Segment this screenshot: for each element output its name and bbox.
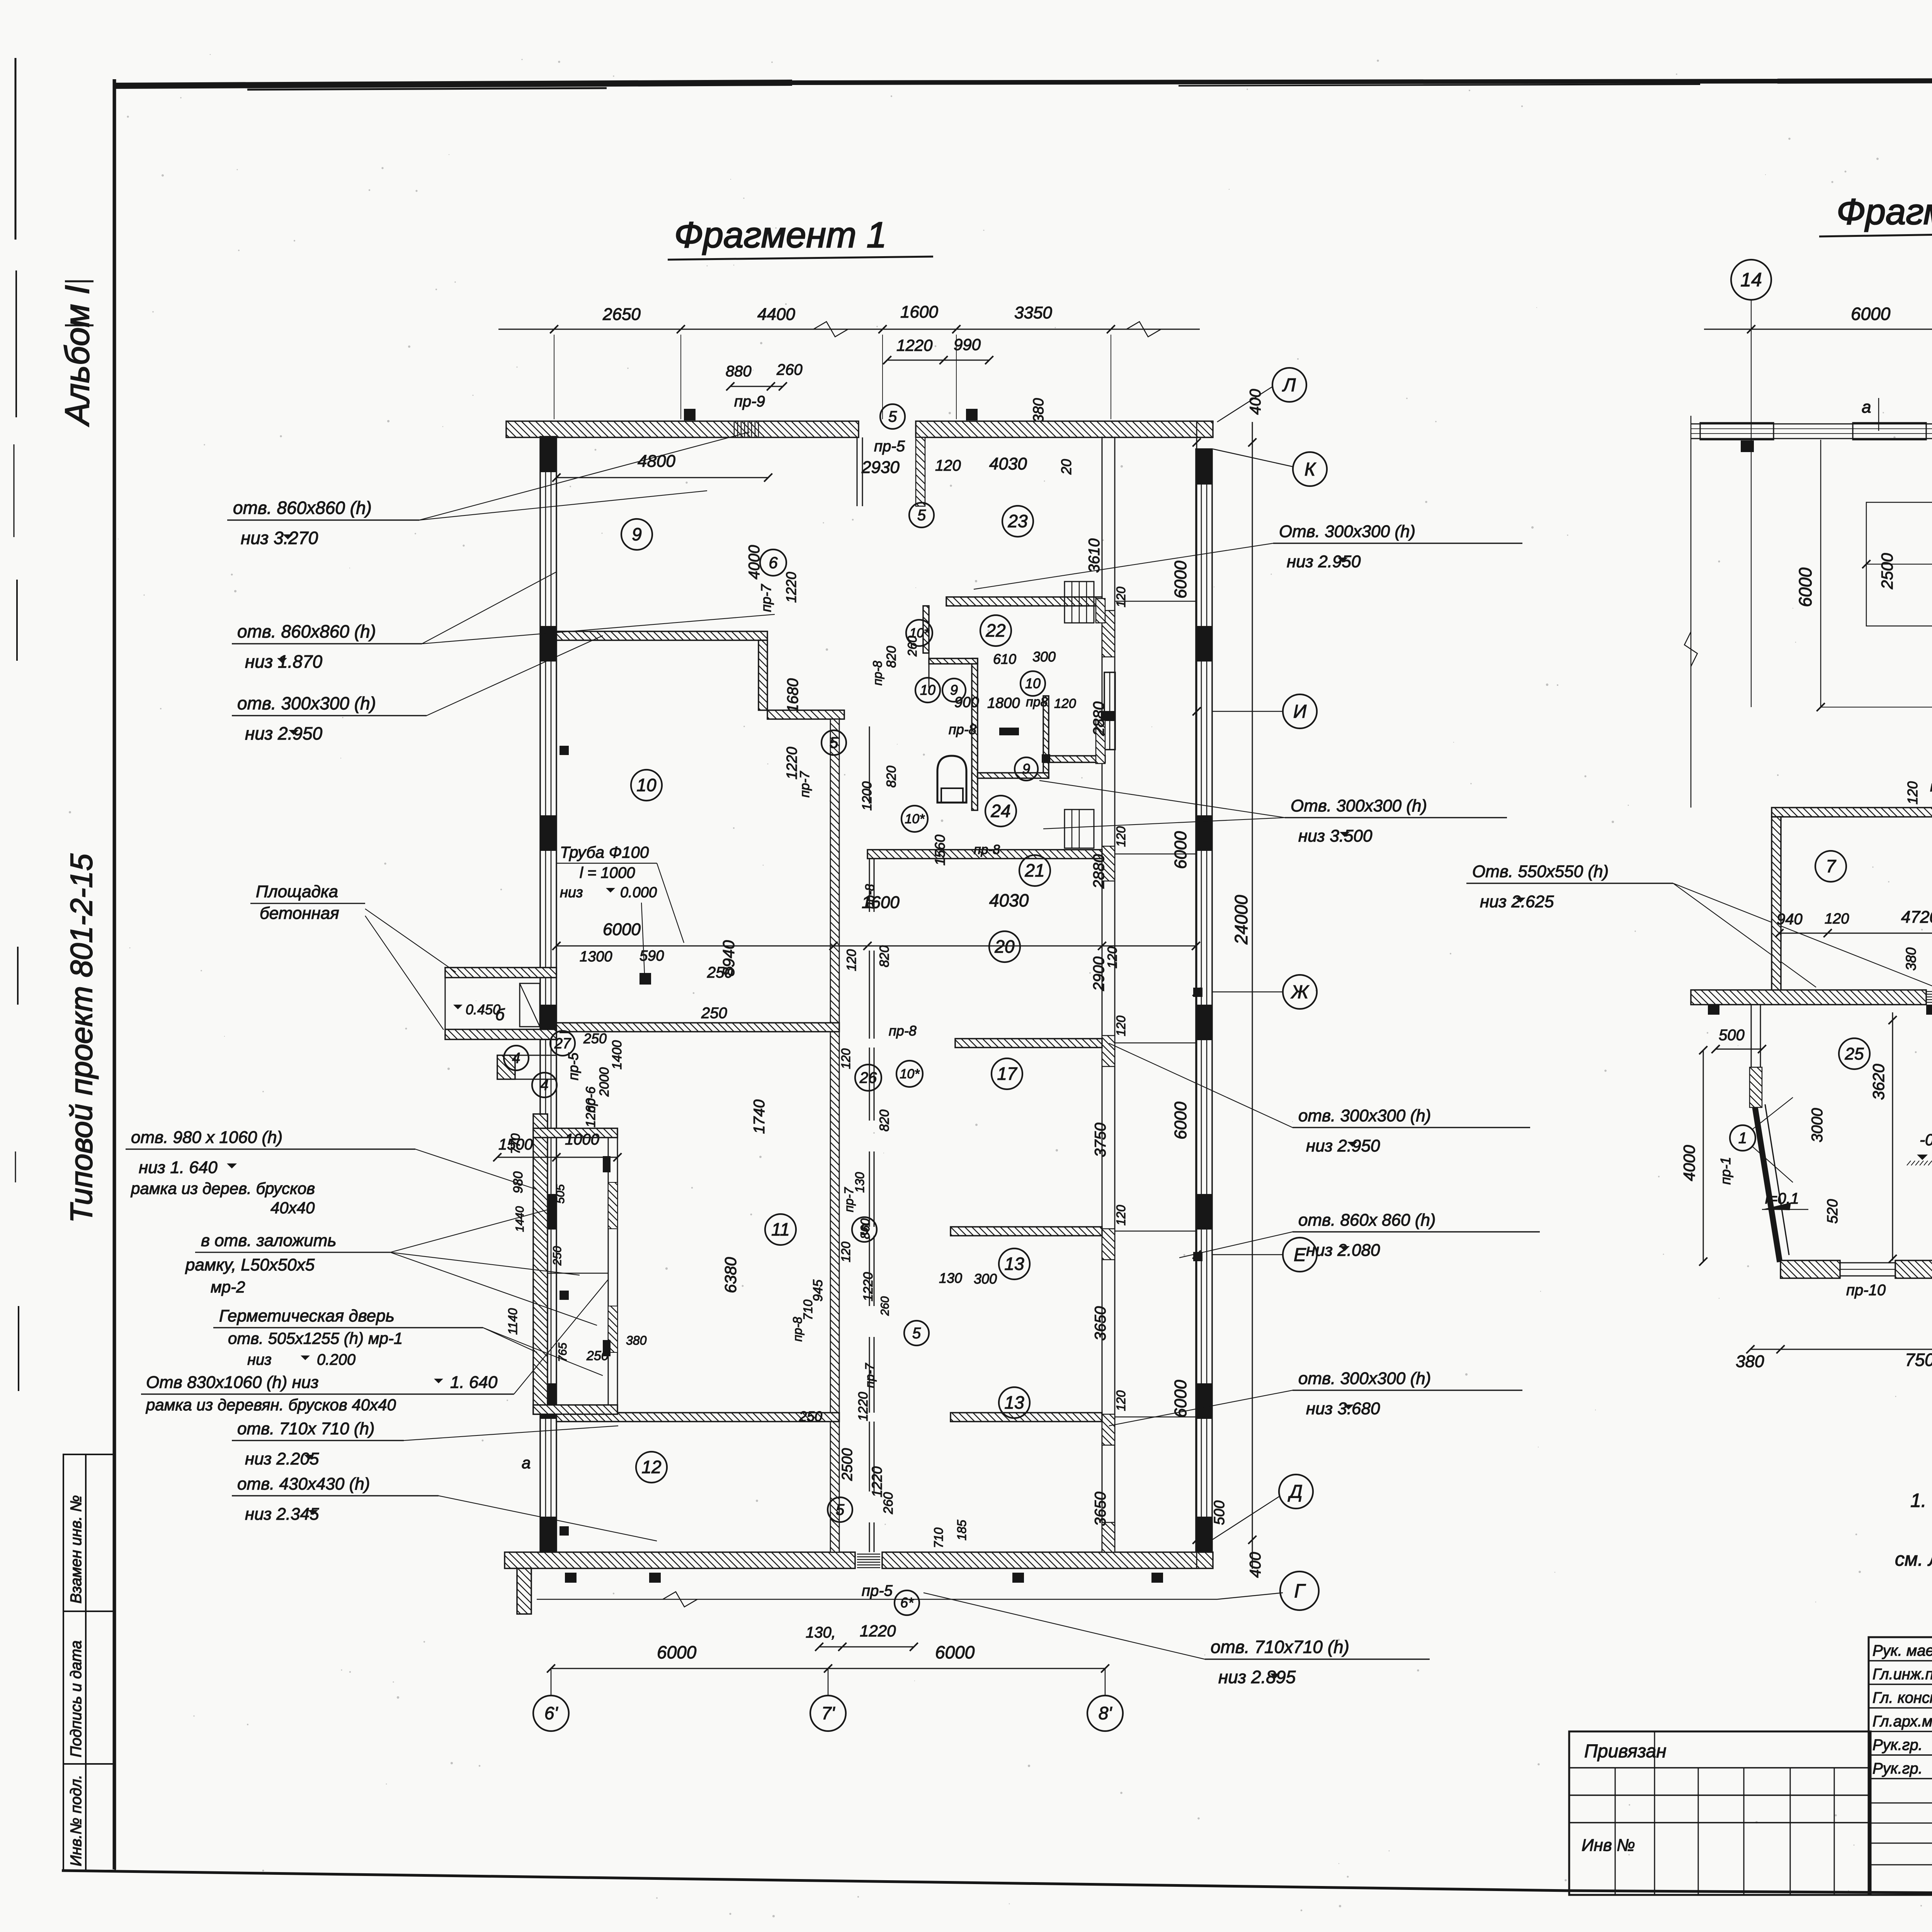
svg-text:185: 185 bbox=[955, 1520, 969, 1541]
room circle 9 bbox=[621, 519, 652, 550]
room circle 13b bbox=[999, 1387, 1030, 1418]
svg-text:20: 20 bbox=[994, 937, 1015, 957]
svg-text:1400: 1400 bbox=[610, 1040, 624, 1070]
door circles 9/7 fragment2 bbox=[1930, 777, 1932, 823]
svg-text:990: 990 bbox=[954, 335, 981, 354]
svg-text:130,: 130, bbox=[806, 1624, 836, 1641]
svg-text:Гл.инж.пр: Гл.инж.пр bbox=[1872, 1666, 1932, 1683]
svg-text:4030: 4030 bbox=[989, 454, 1027, 473]
svg-text:Рук. мает: Рук. мает bbox=[1872, 1642, 1932, 1659]
svg-text:2930: 2930 bbox=[861, 458, 900, 477]
svg-text:1680: 1680 bbox=[784, 679, 801, 713]
svg-text:5: 5 bbox=[836, 1502, 845, 1519]
annotation Труба Ф100 bbox=[556, 843, 684, 974]
fragment1 vertical dim chain 24000 bbox=[1231, 422, 1257, 1569]
svg-text:4800: 4800 bbox=[638, 452, 675, 471]
svg-text:Отв 830х1060 (h) низ: Отв 830х1060 (h) низ bbox=[146, 1373, 319, 1392]
svg-text:2650: 2650 bbox=[602, 305, 641, 324]
wall: room25 left bbox=[1750, 1005, 1762, 1107]
svg-text:10*: 10* bbox=[905, 812, 925, 827]
circle 5 top door bbox=[880, 404, 905, 429]
svg-text:1800: 1800 bbox=[987, 695, 1020, 711]
labels пр-1 room25 bbox=[1718, 1157, 1932, 1185]
grid circle 14 bbox=[1731, 260, 1771, 707]
wall: plan1 bottom exterior right segment bbox=[882, 1552, 1213, 1568]
svg-text:6000: 6000 bbox=[935, 1642, 975, 1662]
svg-text:пр-7: пр-7 bbox=[798, 771, 812, 798]
svg-text:10: 10 bbox=[636, 775, 656, 795]
dim row rooms 7/8 bbox=[1775, 905, 1932, 974]
svg-text:1. Конструкцию дверей с и: 1. Конструкцию дверей с индексами bbox=[1910, 1490, 1932, 1511]
grid circle Ж bbox=[1283, 975, 1317, 1009]
wall: jog vertical bbox=[759, 640, 767, 710]
svg-text:5: 5 bbox=[860, 1221, 869, 1238]
svg-text:пр-9: пр-9 bbox=[734, 393, 765, 410]
svg-text:4030: 4030 bbox=[989, 890, 1029, 910]
svg-text:4400: 4400 bbox=[757, 305, 795, 324]
svg-text:250: 250 bbox=[583, 1031, 607, 1046]
svg-text:низ: низ bbox=[247, 1351, 272, 1368]
axis line Ж bbox=[1212, 992, 1283, 993]
grid circle И bbox=[1283, 694, 1317, 728]
platform rectangle room6 bbox=[1862, 498, 1932, 630]
svg-text:пр-8: пр-8 bbox=[974, 842, 1000, 857]
wall: room10|room11 horizontal bbox=[556, 1023, 839, 1032]
circle 27 label bbox=[550, 1031, 575, 1056]
vestibule bottom wall bbox=[533, 1405, 617, 1414]
sheet frame: left border line bbox=[113, 79, 116, 1869]
sheet frame: bottom border line bbox=[62, 1871, 1932, 1897]
grid circle 7 prime bbox=[810, 1668, 846, 1731]
svg-text:низ 2.950: низ 2.950 bbox=[1287, 552, 1361, 571]
svg-text:1. 640: 1. 640 bbox=[450, 1373, 498, 1392]
annotation отв.860x860 низ2.080 bbox=[1179, 1211, 1540, 1260]
wall: plan1 bottom-left corner stub bbox=[517, 1568, 531, 1614]
wall: plan1 right exterior with windows bbox=[1196, 449, 1212, 1552]
svg-text:250: 250 bbox=[701, 1005, 727, 1022]
svg-text:500: 500 bbox=[1719, 1027, 1745, 1044]
wall: plan1 left exterior with windows bbox=[540, 437, 556, 1552]
svg-text:980: 980 bbox=[511, 1172, 526, 1194]
svg-text:пр-8: пр-8 bbox=[1930, 779, 1932, 795]
svg-text:820: 820 bbox=[877, 946, 892, 968]
axis line Г bbox=[537, 1592, 1283, 1607]
привязан bottom extension bbox=[1569, 1894, 1869, 1896]
svg-text:мр-2: мр-2 bbox=[211, 1278, 245, 1296]
label а fragment2 bbox=[1862, 398, 1879, 431]
svg-text:9: 9 bbox=[1022, 761, 1030, 777]
grid circle К bbox=[1293, 452, 1327, 486]
svg-text:Отв. 300х300 (h): Отв. 300х300 (h) bbox=[1291, 796, 1427, 815]
truba black mark bbox=[639, 973, 651, 985]
svg-text:а: а bbox=[1862, 398, 1871, 417]
привязан block outer bbox=[1569, 1731, 1871, 1895]
svg-text:Фрагмент 2: Фрагмент 2 bbox=[1837, 191, 1932, 232]
room circle 25 bbox=[1839, 1038, 1870, 1069]
wall: plan2 Л-axis bottom wall bbox=[1691, 990, 1932, 1005]
svg-text:5: 5 bbox=[888, 408, 897, 425]
rotated dimension texts fragment1 bbox=[514, 539, 1128, 1548]
svg-text:24: 24 bbox=[990, 801, 1010, 821]
grid circle Г bbox=[1280, 1571, 1319, 1610]
column marks plan2 top bbox=[1741, 440, 1932, 452]
fragment1 top dim chain 880/260 bbox=[726, 361, 803, 391]
axis line И bbox=[1212, 711, 1283, 712]
svg-text:отв. 300х300 (h): отв. 300х300 (h) bbox=[1298, 1106, 1431, 1125]
svg-text:9: 9 bbox=[950, 682, 958, 698]
svg-text:2500: 2500 bbox=[839, 1448, 855, 1481]
grid circle 8 prime bbox=[1087, 1668, 1123, 1731]
svg-text:6000: 6000 bbox=[1171, 561, 1190, 599]
svg-text:380: 380 bbox=[626, 1333, 647, 1347]
svg-text:6000: 6000 bbox=[1795, 567, 1815, 607]
svg-text:Фрагмент 1: Фрагмент 1 bbox=[674, 214, 887, 255]
fixture: WC in room 24 bbox=[937, 756, 966, 803]
svg-text:1200: 1200 bbox=[860, 781, 874, 811]
annotation отв.300x300 низ3.680 bbox=[1109, 1369, 1522, 1426]
svg-text:25: 25 bbox=[1845, 1044, 1864, 1063]
sheet frame: top border line bbox=[113, 79, 1932, 90]
svg-text:-0.150: -0.150 bbox=[1920, 1131, 1932, 1149]
svg-text:6': 6' bbox=[544, 1703, 559, 1723]
svg-text:низ 2.205: низ 2.205 bbox=[245, 1449, 319, 1468]
svg-text:в отв. заложить: в отв. заложить bbox=[201, 1231, 337, 1250]
column marks plan1 bbox=[560, 409, 1202, 1583]
svg-text:400: 400 bbox=[1247, 1552, 1264, 1578]
vent shaft room21 bbox=[1065, 810, 1094, 848]
fragment1 top dim chain 2650/4400/1600/3350 bbox=[498, 303, 1200, 419]
svg-text:120: 120 bbox=[1825, 911, 1849, 927]
svg-text:260: 260 bbox=[776, 361, 803, 378]
svg-text:низ 2.625: низ 2.625 bbox=[1480, 892, 1554, 911]
grid circle Е bbox=[1283, 1238, 1317, 1272]
vestibule rotated dims bbox=[506, 1133, 569, 1362]
dims 500/400 bottom right bbox=[1211, 1500, 1264, 1578]
annotation отв.300x300 низ2.950 (2) bbox=[1109, 1043, 1530, 1155]
fragment1 dim row 6000/1600/4030 at y2448 bbox=[552, 890, 1200, 971]
svg-text:бетонная: бетонная bbox=[260, 904, 339, 923]
wall: rooms20|17 horizontal bbox=[955, 1039, 1102, 1048]
labels пр-10 bbox=[1846, 1282, 1932, 1299]
title: Фрагмент 2 bbox=[1819, 191, 1932, 236]
svg-text:8': 8' bbox=[1099, 1703, 1113, 1723]
svg-text:Л: Л bbox=[1282, 375, 1296, 395]
svg-text:2900: 2900 bbox=[1090, 957, 1107, 992]
wall: plan2 top exterior window band bbox=[1684, 416, 1932, 808]
svg-text:820: 820 bbox=[877, 1110, 892, 1132]
svg-text:1440: 1440 bbox=[514, 1206, 526, 1232]
stub below platform bbox=[497, 1055, 556, 1079]
svg-text:низ 3.270: низ 3.270 bbox=[241, 528, 318, 548]
svg-text:1220: 1220 bbox=[860, 1622, 896, 1640]
привязан columns bbox=[1615, 1731, 1834, 1895]
annotation в отв заложить bbox=[185, 1209, 597, 1325]
svg-text:11: 11 bbox=[771, 1219, 790, 1240]
svg-text:низ 1. 640: низ 1. 640 bbox=[139, 1158, 218, 1177]
annotation Площадка бетонная bbox=[250, 882, 456, 1030]
svg-text:пр-8: пр-8 bbox=[889, 1023, 917, 1039]
annotation Отв.300x300 низ3.500 bbox=[1039, 781, 1507, 845]
svg-text:23: 23 bbox=[1007, 511, 1028, 531]
svg-text:пр-5: пр-5 bbox=[565, 1052, 581, 1080]
svg-text:К: К bbox=[1304, 459, 1316, 480]
svg-text:260: 260 bbox=[881, 1492, 896, 1515]
svg-text:Труба Ф100: Труба Ф100 bbox=[560, 843, 649, 861]
svg-text:низ 1.870: низ 1.870 bbox=[245, 651, 323, 672]
fragment1 dim 4800 with line bbox=[552, 452, 772, 482]
svg-text:3000: 3000 bbox=[1809, 1108, 1826, 1143]
svg-text:4: 4 bbox=[540, 1077, 548, 1094]
svg-text:отв. 505х1255 (h) мр-1: отв. 505х1255 (h) мр-1 bbox=[228, 1329, 403, 1347]
column marks Л wall bbox=[1708, 1005, 1932, 1015]
svg-text:3610: 3610 bbox=[1086, 539, 1103, 573]
svg-text:120: 120 bbox=[844, 949, 859, 971]
svg-text:низ 2.345: низ 2.345 bbox=[245, 1505, 319, 1524]
axis line Д bbox=[1212, 1496, 1280, 1540]
svg-text:пр-5: пр-5 bbox=[874, 438, 905, 455]
svg-text:пр-8: пр-8 bbox=[949, 721, 976, 737]
svg-text:рамка из деревян. брусков 4: рамка из деревян. брусков 40х40 bbox=[145, 1396, 396, 1414]
wall: room25 bottom band bbox=[1781, 1260, 1932, 1278]
fragment1 top dim chain 1220/990 bbox=[883, 335, 993, 364]
room25 500 dims bbox=[1711, 1026, 1932, 1053]
door hatch пр-9 in top wall bbox=[734, 422, 759, 437]
titleblock signature names bbox=[1872, 1642, 1932, 1777]
svg-text:130: 130 bbox=[939, 1270, 962, 1286]
svg-text:5: 5 bbox=[917, 507, 926, 524]
svg-text:отв. 860х860 (h): отв. 860х860 (h) bbox=[233, 498, 372, 518]
horizontal small dimension texts fragment1 bbox=[586, 649, 1076, 1424]
svg-text:0.200: 0.200 bbox=[317, 1351, 355, 1368]
svg-text:б: б bbox=[495, 1005, 505, 1024]
wall: plan1 bottom exterior left segment bbox=[505, 1552, 855, 1568]
title: Фрагмент 1 bbox=[668, 214, 933, 260]
svg-text:400: 400 bbox=[1247, 389, 1264, 415]
wall: rooms7/8 top bbox=[1772, 806, 1932, 818]
svg-text:пр8: пр8 bbox=[1026, 695, 1048, 709]
svg-text:945: 945 bbox=[811, 1280, 825, 1302]
svg-text:26: 26 bbox=[859, 1070, 877, 1087]
svg-text:Типовой проект 801-2-15: Типовой проект 801-2-15 bbox=[64, 854, 99, 1223]
annotation Отв.300x300 низ2.950 right bbox=[974, 522, 1522, 589]
svg-text:отв. 300х300 (h): отв. 300х300 (h) bbox=[1298, 1369, 1431, 1388]
svg-text:4: 4 bbox=[512, 1050, 520, 1066]
wall: plan1 top exterior left segment bbox=[506, 421, 859, 437]
svg-text:низ: низ bbox=[560, 884, 583, 901]
svg-text:а: а bbox=[522, 1454, 531, 1472]
svg-text:3650: 3650 bbox=[1092, 1492, 1109, 1526]
svg-text:1220: 1220 bbox=[783, 572, 799, 603]
svg-text:5: 5 bbox=[830, 735, 838, 752]
svg-text:Рук.гр.: Рук.гр. bbox=[1872, 1736, 1923, 1753]
svg-text:300: 300 bbox=[1032, 649, 1056, 665]
svg-text:120: 120 bbox=[1114, 1015, 1128, 1036]
svg-text:1260: 1260 bbox=[583, 1098, 598, 1128]
room25 inner dims bbox=[1809, 1012, 1932, 1263]
svg-text:40х40: 40х40 bbox=[270, 1199, 315, 1217]
svg-text:2000: 2000 bbox=[597, 1067, 612, 1097]
titleblock signature rows bbox=[1869, 1661, 1932, 1865]
svg-text:Отв. 550х550 (h): Отв. 550х550 (h) bbox=[1472, 862, 1609, 881]
dims 1300/590/250 row bbox=[580, 948, 733, 981]
wall: rooms7 left vertical bbox=[1772, 817, 1781, 998]
wall: rooms13|13 horizontal bbox=[951, 1413, 1102, 1422]
svg-text:250: 250 bbox=[551, 1246, 564, 1266]
fragment1 bottom dims 130/1220 bbox=[806, 1622, 918, 1651]
svg-text:отв. 980 х 1060 (h): отв. 980 х 1060 (h) bbox=[131, 1128, 282, 1147]
svg-text:пр-5: пр-5 bbox=[862, 1582, 893, 1599]
dims 1500 1000 row bbox=[493, 1131, 621, 1162]
vestibule top wall bbox=[533, 1128, 617, 1138]
svg-text:710: 710 bbox=[801, 1299, 815, 1320]
annotation отв.830x1060 bbox=[141, 1279, 609, 1414]
wall: interior longitudinal x2852 (double line with blocks) bbox=[1101, 437, 1116, 1552]
sidebar stamp boxes bbox=[63, 1454, 115, 1871]
svg-text:отв. 860х 860 (h): отв. 860х 860 (h) bbox=[1298, 1211, 1436, 1230]
annotation отв.430x430 bbox=[232, 1475, 657, 1541]
svg-text:3650: 3650 bbox=[1092, 1306, 1109, 1341]
annotation рамка из дерев брусков bbox=[130, 1179, 315, 1217]
svg-text:пр-7: пр-7 bbox=[863, 1363, 877, 1388]
svg-text:6000: 6000 bbox=[1171, 1102, 1190, 1139]
svg-text:1600: 1600 bbox=[900, 303, 938, 321]
svg-text:Гл.арх.мос: Гл.арх.мос bbox=[1872, 1713, 1932, 1730]
room circle 13a bbox=[999, 1248, 1030, 1279]
grid circle Д bbox=[1279, 1475, 1313, 1509]
label пр-5 bottom bbox=[862, 1582, 893, 1599]
svg-text:низ 2.950: низ 2.950 bbox=[1306, 1136, 1380, 1155]
svg-text:120: 120 bbox=[1114, 1205, 1128, 1226]
wall: room9|room10 horizontal bbox=[556, 631, 767, 640]
room circle 10 bbox=[631, 770, 662, 801]
room25 bottom dim 380/7500/380 bbox=[1736, 1345, 1932, 1371]
svg-text:820: 820 bbox=[884, 646, 899, 668]
wall: sanitary small room bbox=[929, 658, 1105, 810]
svg-text:2880: 2880 bbox=[1090, 854, 1107, 889]
svg-text:пр-7: пр-7 bbox=[758, 583, 774, 612]
platform level mark 0.450 bbox=[453, 1002, 500, 1017]
svg-text:17: 17 bbox=[997, 1064, 1017, 1084]
fragment1 dim 2930/120/4030/20 row bbox=[861, 454, 1074, 477]
grid circle 6 prime bbox=[533, 1668, 569, 1731]
labels пр-5 пр-6 left bbox=[565, 1031, 607, 1113]
svg-text:380: 380 bbox=[1736, 1352, 1764, 1371]
annotation отв.710x710 низ2.895 bbox=[923, 1593, 1430, 1687]
svg-text:610: 610 bbox=[993, 651, 1016, 667]
wall: room25 left chamfer bbox=[1755, 1104, 1789, 1262]
svg-text:940: 940 bbox=[1777, 911, 1803, 928]
svg-text:низ 3.680: низ 3.680 bbox=[1306, 1399, 1380, 1418]
room circle 17 bbox=[992, 1058, 1022, 1089]
svg-text:пр-8: пр-8 bbox=[871, 661, 884, 685]
annotation отв.860x860 (1) bbox=[227, 432, 750, 548]
labels пр-8 cluster bbox=[871, 661, 1000, 1039]
svg-text:отв. 860х860 (h): отв. 860х860 (h) bbox=[237, 621, 376, 641]
svg-text:120: 120 bbox=[935, 457, 961, 474]
svg-text:0.000: 0.000 bbox=[620, 884, 657, 901]
svg-text:250: 250 bbox=[799, 1408, 822, 1424]
svg-text:120: 120 bbox=[839, 1242, 853, 1262]
wall: sanitary vert stub bbox=[923, 606, 929, 653]
room circle 24 bbox=[985, 796, 1016, 827]
svg-text:10: 10 bbox=[1025, 675, 1041, 691]
svg-text:низ 2.950: низ 2.950 bbox=[245, 723, 323, 743]
circles 1 room25 bbox=[1730, 1097, 1932, 1182]
fragment1 vertical dim chain 6000x4 bbox=[1171, 422, 1201, 1569]
svg-text:1220: 1220 bbox=[896, 336, 933, 354]
svg-text:3620: 3620 bbox=[1869, 1064, 1888, 1100]
svg-text:6000: 6000 bbox=[1171, 831, 1190, 869]
svg-text:рамка из дерев. брусков: рамка из дерев. брусков bbox=[130, 1179, 315, 1197]
svg-text:Отв. 300х300 (h): Отв. 300х300 (h) bbox=[1279, 522, 1415, 541]
svg-text:12: 12 bbox=[641, 1457, 661, 1477]
svg-text:пр-10: пр-10 bbox=[1846, 1282, 1886, 1299]
annotation отв.710x710 left bbox=[232, 1419, 618, 1468]
svg-text:120: 120 bbox=[1054, 696, 1076, 711]
titleblock signature table outer bbox=[1869, 1637, 1932, 1895]
svg-text:1000: 1000 bbox=[565, 1131, 599, 1148]
wall: jog horizontal bbox=[767, 710, 844, 719]
svg-text:1220: 1220 bbox=[856, 1392, 871, 1421]
svg-text:6000: 6000 bbox=[603, 920, 641, 939]
svg-text:520: 520 bbox=[1825, 1199, 1841, 1223]
svg-text:Инв.№ подл.: Инв.№ подл. bbox=[68, 1775, 85, 1866]
room circle 23 bbox=[1002, 506, 1033, 537]
wall: plan1 top exterior right segment bbox=[916, 421, 1213, 437]
svg-text:отв. 430х430 (h): отв. 430х430 (h) bbox=[237, 1475, 370, 1493]
wall: rooms11|12 horizontal bbox=[556, 1413, 839, 1422]
sheet frame: torn left paper edge marks bbox=[14, 58, 19, 1391]
svg-text:13: 13 bbox=[1004, 1393, 1024, 1413]
svg-text:27: 27 bbox=[554, 1036, 571, 1052]
svg-text:Герметическая дверь: Герметическая дверь bbox=[219, 1306, 395, 1325]
room circle 7 bbox=[1815, 851, 1846, 882]
partition segments middle column bbox=[869, 859, 874, 1552]
annotation отв.300x300 (1) bbox=[232, 636, 603, 743]
svg-text:Подпись и дата: Подпись и дата bbox=[68, 1640, 85, 1757]
svg-text:Г: Г bbox=[1294, 1580, 1306, 1602]
vent shaft room22 bbox=[1065, 582, 1105, 623]
svg-text:Площадка: Площадка bbox=[256, 882, 338, 901]
room circle 22 bbox=[980, 615, 1011, 646]
svg-text:4000: 4000 bbox=[1680, 1145, 1698, 1181]
svg-text:120: 120 bbox=[839, 1048, 853, 1069]
svg-text:120: 120 bbox=[1114, 587, 1128, 607]
wall: corridor-left vertical x2149 bbox=[830, 719, 839, 1552]
svg-text:7500: 7500 bbox=[1905, 1350, 1932, 1370]
svg-text:8940: 8940 bbox=[719, 940, 738, 976]
svg-text:отв. 300х300 (h): отв. 300х300 (h) bbox=[237, 693, 376, 713]
svg-text:120: 120 bbox=[1114, 826, 1128, 847]
svg-text:низ 2.080: низ 2.080 bbox=[1306, 1241, 1380, 1260]
svg-text:отв. 710х 710 (h): отв. 710х 710 (h) bbox=[237, 1419, 375, 1438]
svg-text:4720: 4720 bbox=[1901, 908, 1932, 927]
wall: rooms21|20 horizontal bbox=[867, 850, 1102, 859]
svg-text:1500: 1500 bbox=[498, 1136, 533, 1153]
svg-text:l = 1000: l = 1000 bbox=[580, 864, 635, 881]
svg-text:120: 120 bbox=[1905, 781, 1920, 804]
svg-text:6380: 6380 bbox=[721, 1257, 740, 1293]
svg-text:820: 820 bbox=[884, 766, 899, 788]
svg-text:500: 500 bbox=[1211, 1500, 1228, 1525]
svg-text:9: 9 bbox=[632, 524, 642, 544]
room25 slope marks bbox=[1762, 1189, 1932, 1210]
fragment1 bottom dim 6000/6000 bbox=[547, 1642, 1109, 1673]
svg-text:24000: 24000 bbox=[1231, 895, 1251, 945]
svg-text:Рук.гр.: Рук.гр. bbox=[1872, 1760, 1923, 1777]
svg-text:6*: 6* bbox=[900, 1595, 914, 1611]
svg-text:рамку, L50х50х5: рамку, L50х50х5 bbox=[185, 1255, 315, 1274]
